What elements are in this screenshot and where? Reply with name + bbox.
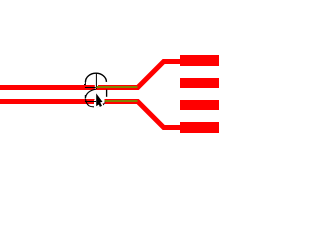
pin marker B: horizontal bar at wire end (over cursor halo): [85, 101, 96, 103]
cursor white halo right of arrowhead: [102, 99, 105, 104]
pad 4 (bottom SMD pad): [180, 122, 219, 133]
pin marker B: right arc edge: [106, 90, 108, 97]
cursor white halo left of arrow: [94, 100, 96, 105]
olive overlay line on upper trace: [96, 86, 138, 88]
pin marker A: horizontal bar at wire end: [85, 87, 96, 89]
pin marker A: vertical crosshair line: [95, 73, 97, 89]
pin marker B: bottom arc: [96, 105, 98, 107]
wire: lower red trace with 45-degree bend to pad 4: [0, 102, 181, 128]
pin marker B: bottom-right arc: [99, 102, 105, 107]
mouse cursor arrow: [96, 93, 102, 107]
wire: upper red trace with 45-degree bend to pad 1: [0, 62, 181, 88]
pin marker B: left edge tick: [84, 95, 86, 99]
pin marker A: left arc drop into trace: [84, 81, 86, 85]
pin marker A: top semicircle arc: [86, 73, 107, 82]
pad 1 (top SMD pad): [180, 55, 219, 66]
olive overlay line on lower trace: [96, 100, 138, 102]
white notch splitting upper trace at pin A: [95, 84, 96, 89]
pin marker B: top-left arc staircase: [85, 89, 95, 98]
mouse cursor white outline: [96, 93, 102, 107]
pad 2: [180, 78, 219, 88]
pad 3: [180, 100, 219, 110]
pin marker B: bottom-left arc: [86, 99, 95, 107]
